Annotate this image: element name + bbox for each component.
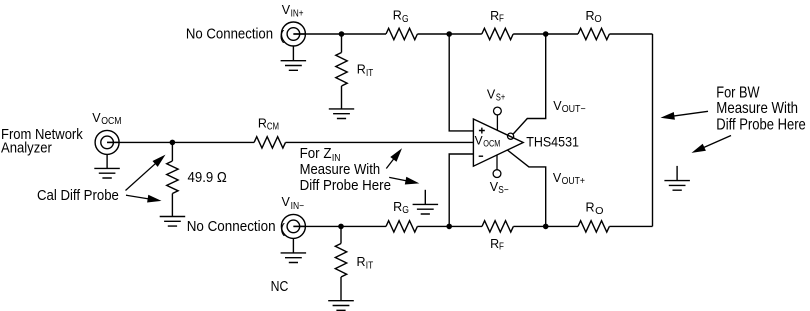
node junction bottom-RIT <box>338 224 344 230</box>
svg-text:R: R <box>357 255 366 269</box>
ground ZIN probe <box>424 190 426 205</box>
svg-text:V: V <box>282 3 291 17</box>
node junction RF2-RO2 <box>543 224 549 230</box>
wire RIT1 to ground <box>341 86 343 109</box>
arrow ZIN up <box>386 155 397 169</box>
arrow Cal Diff Probe to node <box>126 160 160 190</box>
ground below RIT1 <box>329 109 354 119</box>
svg-text:S+: S+ <box>496 93 505 104</box>
svg-text:OCM: OCM <box>483 139 500 149</box>
svg-text:O: O <box>594 14 602 25</box>
node junction RF1-RO1 <box>543 31 549 37</box>
svg-text:V: V <box>475 134 483 148</box>
svg-text:OUT−: OUT− <box>562 104 586 115</box>
arrow BW down-left <box>699 136 731 150</box>
resistor RG2 (bottom) <box>386 221 417 232</box>
wire VOCM to RCM <box>107 141 254 143</box>
supply VS+ terminal <box>494 107 502 115</box>
arrow ZIN right <box>389 177 411 181</box>
wire RO1 to right rail <box>609 33 652 35</box>
svg-text:(: ( <box>280 27 285 43</box>
svg-text:(: ( <box>280 220 285 236</box>
svg-text:G: G <box>402 14 409 25</box>
wire VOUT- to top rail <box>513 34 545 134</box>
wire to RIT2 <box>340 226 342 243</box>
connector VIN+ (coax jack) <box>281 22 305 46</box>
resistor RF2 (bottom) <box>482 221 513 232</box>
svg-text:No Connection: No Connection <box>187 218 276 235</box>
svg-text:Diff Probe Here: Diff Probe Here <box>716 116 806 133</box>
connector VIN- (coax jack) <box>281 214 305 238</box>
op-amp + sign <box>479 128 485 134</box>
svg-text:CM: CM <box>267 122 279 133</box>
svg-text:R: R <box>357 63 366 77</box>
ground below VIN- connector <box>292 238 294 253</box>
svg-text:R: R <box>393 200 402 214</box>
svg-text:R: R <box>258 116 267 130</box>
resistor RIT2 (bottom) <box>335 244 346 277</box>
svg-text:R: R <box>393 9 402 23</box>
node junction RG1-RF1 <box>446 31 452 37</box>
svg-text:V: V <box>282 195 291 209</box>
wire right rail (output loop) <box>652 34 654 226</box>
wire RCM to op-amp <box>286 141 474 143</box>
svg-text:Measure With: Measure With <box>300 162 381 178</box>
wire VIN- to RG2 <box>293 225 386 227</box>
svg-text:IT: IT <box>366 261 373 272</box>
svg-text:Measure With: Measure With <box>716 100 798 117</box>
svg-text:For BW: For BW <box>716 84 760 101</box>
svg-text:IT: IT <box>366 68 373 79</box>
svg-text:IN−: IN− <box>291 201 305 212</box>
svg-text:NC: NC <box>271 279 289 295</box>
resistor 49.9 ohm <box>167 161 178 194</box>
resistor RF1 (top) <box>482 28 513 39</box>
svg-text:Diff Probe Here: Diff Probe Here <box>300 178 391 194</box>
node junction RG2-RF2 <box>446 224 452 230</box>
svg-text:V: V <box>92 111 101 125</box>
wire RF1 to RO1 <box>513 33 578 35</box>
wire to 49.9 resistor <box>171 142 173 161</box>
arrow Cal Diff Probe to resistor <box>126 195 153 199</box>
svg-text:No Connection: No Connection <box>186 26 273 43</box>
wire - input feed <box>449 154 473 226</box>
supply VS- terminal <box>493 170 501 178</box>
wire VIN+ to RG1 <box>293 33 386 35</box>
wire RIT2 to ground <box>340 277 342 301</box>
svg-text:R: R <box>490 9 499 23</box>
svg-text:Analyzer: Analyzer <box>1 139 52 156</box>
svg-text:IN+: IN+ <box>291 9 304 20</box>
svg-text:V: V <box>487 88 496 102</box>
connector VOCM (coax jack) <box>95 130 119 154</box>
svg-text:OCM: OCM <box>101 116 121 127</box>
wire to RIT1 <box>341 34 343 53</box>
ground below VOCM connector <box>106 154 108 168</box>
wire RO2 to right rail <box>609 225 652 227</box>
wire + input feed <box>449 34 473 131</box>
svg-text:R: R <box>490 237 499 251</box>
svg-text:OUT+: OUT+ <box>562 176 586 187</box>
arrow BW left <box>669 111 708 116</box>
resistor RIT1 (top) <box>336 53 347 86</box>
op-amp inverting output bubble <box>508 133 514 139</box>
svg-text:For Z: For Z <box>300 146 332 162</box>
resistor RO2 (bottom) <box>578 221 609 232</box>
resistor RO1 (top) <box>578 28 609 39</box>
svg-text:Cal Diff Probe: Cal Diff Probe <box>37 187 119 204</box>
op-amp - sign <box>479 155 483 157</box>
ground below RIT2 <box>328 301 354 311</box>
wire RG2 to RF2 <box>417 225 482 227</box>
svg-text:F: F <box>499 14 504 25</box>
resistor RCM <box>254 137 285 148</box>
svg-text:V: V <box>553 171 562 185</box>
wire RG1 to RF1 <box>417 33 481 35</box>
svg-text:R: R <box>586 9 595 23</box>
svg-text:G: G <box>402 205 409 216</box>
ground BW probe <box>676 166 678 181</box>
node junction top-RIT <box>339 31 345 37</box>
op-amp U1 THS4531 triangle <box>473 119 523 166</box>
svg-text:R: R <box>586 201 595 215</box>
svg-text:THS4531: THS4531 <box>526 134 579 149</box>
wire VOUT+ to bottom rail <box>508 150 546 226</box>
wire RF2 to RO2 <box>513 225 578 227</box>
wire 49.9 to ground <box>171 194 173 217</box>
svg-text:S−: S− <box>498 185 509 196</box>
ground below 49.9 <box>160 217 186 227</box>
svg-text:49.9 Ω: 49.9 Ω <box>188 170 227 186</box>
node junction 49.9 <box>170 140 176 146</box>
resistor RG1 (top) <box>386 28 417 39</box>
ground below VIN+ connector <box>292 46 294 61</box>
svg-text:F: F <box>499 242 504 253</box>
svg-text:O: O <box>595 206 604 217</box>
